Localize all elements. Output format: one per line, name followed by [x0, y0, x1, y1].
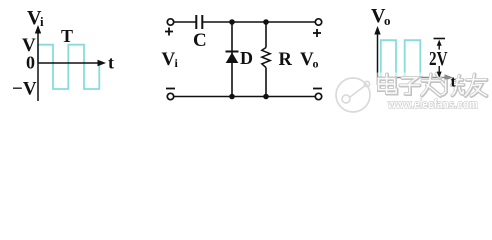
output terminal bottom-right [315, 93, 321, 99]
svg-text:0: 0 [26, 53, 35, 73]
diode D triangle [226, 53, 239, 64]
output terminal top-right [315, 19, 321, 25]
polarity - bottom-left [166, 88, 175, 90]
polarity + top-left [165, 28, 173, 36]
resistor branch wires [265, 22, 267, 48]
resistor R zigzag [262, 48, 270, 68]
2V dimension top tick [434, 38, 446, 40]
right graph: output waveform Vo [371, 5, 453, 85]
watermark translucent wash band [334, 73, 492, 99]
svg-text:R: R [279, 50, 293, 70]
junction dot bottom resistor node [263, 94, 269, 100]
input terminal top-left [167, 19, 173, 25]
Vi square wave [38, 45, 99, 89]
diode branch wire [231, 22, 233, 97]
Vo square wave [381, 40, 421, 77]
top rail wire [174, 21, 196, 23]
horizontal axis t [38, 62, 103, 64]
svg-text:T: T [61, 26, 73, 46]
vertical axis [37, 27, 39, 101]
middle circuit [167, 15, 321, 100]
svg-text:t: t [451, 74, 457, 91]
svg-text:C: C [193, 30, 207, 51]
vertical axis [377, 28, 379, 85]
svg-text:t: t [108, 53, 114, 73]
svg-text:www.elecfans.com: www.elecfans.com [387, 98, 478, 112]
svg-text:o: o [313, 57, 319, 71]
polarity - bottom-right [313, 88, 322, 90]
input terminal bottom-left [167, 93, 173, 99]
2V dimension up arrow [438, 43, 440, 50]
horizontal axis t [378, 77, 451, 79]
svg-text:V: V [162, 49, 176, 70]
svg-text:−V: −V [12, 79, 37, 100]
svg-text:D: D [240, 48, 253, 68]
svg-text:2V: 2V [429, 48, 448, 70]
junction dot top diode node [229, 19, 235, 25]
diode D cathode bar [226, 51, 239, 53]
watermark logo circle [336, 78, 370, 112]
polarity + top-right [313, 29, 321, 37]
bottom rail wire [174, 96, 315, 98]
junction dot bottom diode node [229, 94, 235, 100]
junction dot top resistor node [263, 19, 269, 25]
left graph: input waveform Vi [12, 7, 114, 101]
2V dimension down arrow [438, 66, 440, 73]
capacitor C plates [195, 15, 197, 29]
svg-text:i: i [40, 14, 44, 29]
svg-text:o: o [384, 13, 391, 28]
